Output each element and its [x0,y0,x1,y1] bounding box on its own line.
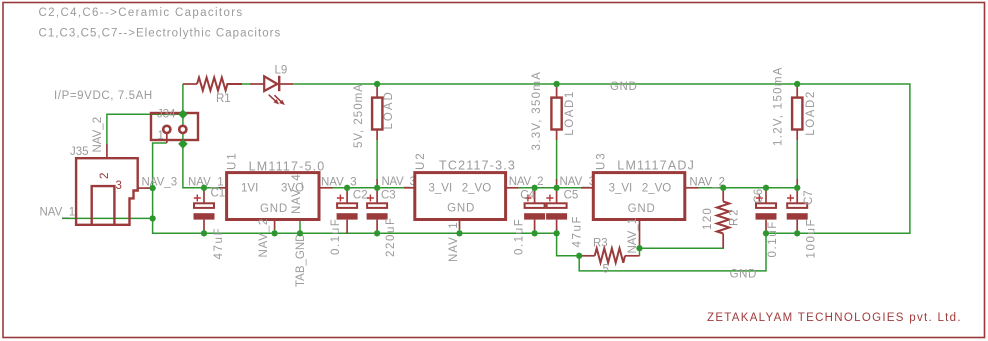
svg-text:NAV_2: NAV_2 [258,218,270,258]
svg-text:GND: GND [730,269,757,281]
svg-text:NAV_3: NAV_3 [560,176,596,188]
svg-text:1: 1 [158,130,164,142]
capacitor C6 [756,189,777,233]
capacitor C2 [337,189,358,233]
wire: ADJ node to R2 bottom [640,236,724,248]
svg-text:GND: GND [447,203,475,215]
svg-text:C4: C4 [520,190,535,202]
wire: LOAD vertical mid segment [376,140,378,180]
svg-text:GND: GND [628,203,656,215]
svg-text:LOAD1: LOAD1 [564,90,576,136]
wire: rail U1 VI segment [204,187,219,189]
svg-text:220uF: 220uF [385,216,397,257]
svg-text:C1: C1 [211,188,226,200]
svg-text:LM1117ADJ: LM1117ADJ [617,159,695,173]
connector J35 [70,146,150,225]
connector J34 [151,109,198,144]
svg-text:0.1uF: 0.1uF [767,220,779,257]
wire: GND bottom loop [579,233,766,271]
svg-text:2: 2 [99,173,111,179]
load resistor LOAD (5V) [353,83,395,188]
junction dots bottom rail [201,230,208,237]
regulator U2 [404,151,519,262]
svg-text:NAV_1: NAV_1 [40,207,76,219]
svg-text:NAV_2: NAV_2 [509,176,544,188]
wire: R3 right to ADJ node [639,248,641,256]
svg-text:3.3V, 350mA: 3.3V, 350mA [531,71,543,151]
junction dots main rail [201,185,208,192]
resistor R3 [579,238,639,276]
wire: rail U3 out to C7 [698,187,797,189]
wire: U1 GND stub lower [274,229,276,233]
svg-text:NAV_4: NAV_4 [291,173,303,214]
junction dot ADJ node [636,245,643,252]
svg-text:1.2V, 150mA: 1.2V, 150mA [773,66,785,146]
svg-text:ZETAKALYAM TECHNOLOGIES pvt. L: ZETAKALYAM TECHNOLOGIES pvt. Ltd. [707,312,962,324]
wire: NAV_1 stub from left [62,217,153,219]
wire: U1 TAB_GND [299,203,301,233]
wire: R1 branch vertical from top rail down through J34 [183,84,204,188]
svg-text:NAV_3: NAV_3 [142,177,178,189]
svg-text:R3: R3 [593,238,608,250]
svg-text:C6: C6 [753,189,765,204]
load resistor LOAD2 (1.2V) [773,66,818,188]
wire: R1 to LED gap segment [241,83,252,85]
junction diamonds J34 [178,109,188,119]
svg-text:NAV_2: NAV_2 [689,177,725,189]
svg-text:L9: L9 [275,65,288,77]
LED L9 [251,65,294,106]
svg-text:NAV_3: NAV_3 [321,177,357,189]
capacitor C5 [546,189,567,233]
svg-text:3_VI 2_VO: 3_VI 2_VO [609,183,672,195]
wire: LOAD2 vertical mid segment [796,140,798,180]
svg-text:0.1uF: 0.1uF [330,218,342,255]
svg-text:LOAD: LOAD [383,90,395,129]
svg-text:TAB_GND: TAB_GND [295,234,307,287]
junction dots top rail [374,81,381,88]
load resistor LOAD1 (3.3V) [531,71,576,188]
capacitor C3 [367,189,388,233]
svg-text:U1: U1 [227,151,239,170]
capacitor C7 [787,189,808,233]
svg-text:C7: C7 [803,190,815,205]
wire: U2 GND stub lower [459,229,461,233]
wire: C5 bottom jog to R3 node [557,233,580,256]
svg-text:1VI: 1VI [241,183,258,195]
svg-text:U2: U2 [415,151,427,170]
svg-text:120: 120 [702,207,714,230]
wire: rail U2 out to U3 in [518,187,581,189]
svg-text:C5: C5 [564,190,579,202]
svg-text:100uF: 100uF [806,218,818,259]
junction dot R3 left [576,253,583,260]
svg-text:3: 3 [116,180,122,192]
svg-text:J35: J35 [70,146,89,158]
wire: top GND rail from LED to right edge [293,84,910,233]
wire: C1 branch [203,188,205,190]
svg-text:R1: R1 [216,93,231,105]
svg-text:I/P=9VDC, 7.5AH: I/P=9VDC, 7.5AH [54,90,153,102]
svg-text:C2: C2 [353,190,368,202]
svg-text:GND: GND [610,81,637,93]
svg-text:R2: R2 [729,207,741,226]
svg-text:NAV_2: NAV_2 [92,117,104,153]
svg-text:5V, 250mA: 5V, 250mA [353,83,365,148]
junction dots left column [149,185,156,192]
svg-text:J34: J34 [157,109,176,121]
capacitor C1 [194,189,215,233]
svg-text:NAV_1: NAV_1 [448,221,460,262]
wire: LOAD1 vertical mid segment [556,140,558,180]
svg-text:LOAD2: LOAD2 [805,90,817,136]
svg-text:C1,C3,C5,C7-->Electrolythic Ca: C1,C3,C5,C7-->Electrolythic Capacitors [39,28,282,40]
resistor R1 [183,83,197,85]
svg-text:U3: U3 [596,151,608,170]
svg-text:5: 5 [603,264,609,276]
resistor R2 [702,188,741,248]
regulator U1 [219,151,333,287]
svg-text:C2,C4,C6-->Ceramic Capacitors: C2,C4,C6-->Ceramic Capacitors [39,7,244,19]
svg-text:LM1117-5.0: LM1117-5.0 [249,160,326,174]
wire: rail U1 out to U2 in [332,187,404,189]
wire: NAV_2 from J35 top to J34 [107,114,183,144]
svg-text:NAV_3: NAV_3 [382,176,416,188]
svg-text:3_VI 2_VO: 3_VI 2_VO [429,183,492,195]
svg-text:0.1uF: 0.1uF [513,218,525,255]
svg-text:47uF: 47uF [213,227,225,260]
svg-text:TC2117-3.3: TC2117-3.3 [439,159,516,173]
svg-text:47uF: 47uF [572,215,584,248]
wire: J35 pin3 to junction [147,187,153,189]
wire: U3 GND stub lower [639,246,641,248]
regulator U3 [581,151,699,253]
wire: J34 pin1 jog down to NAV_3 junction and bottom rail [153,143,557,233]
svg-text:C3: C3 [381,190,396,202]
svg-text:GND: GND [260,203,288,215]
capacitor C4 [524,189,545,233]
